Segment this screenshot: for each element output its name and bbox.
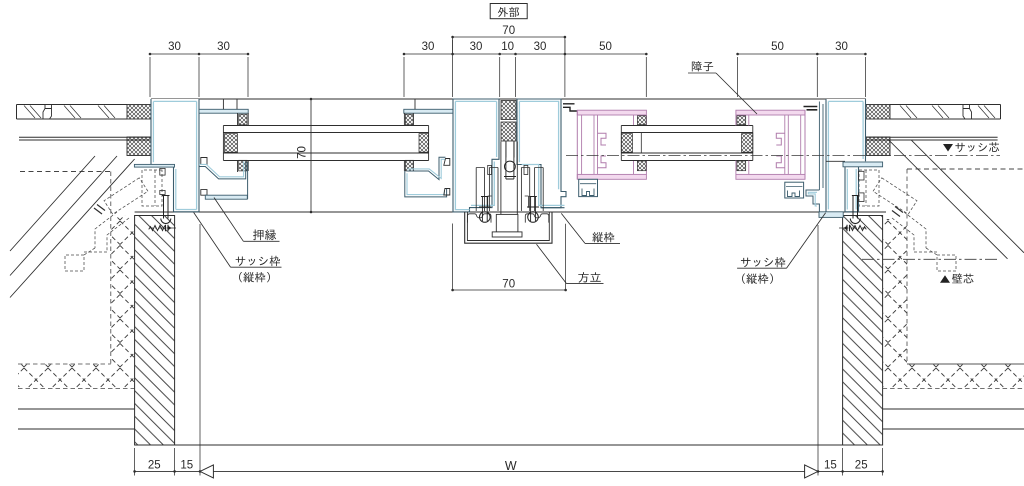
svg-text:30: 30	[168, 41, 181, 53]
wall top edge right	[843, 215, 883, 217]
left jamb wall (hatched)	[135, 216, 175, 446]
70 overall dimension	[453, 36, 565, 38]
jamb foot	[173, 167, 175, 212]
dashed structure outline right	[907, 168, 1024, 170]
top dimension row	[150, 53, 248, 55]
fin clamp marks right	[892, 207, 903, 217]
sash center line (dash-dot)	[566, 155, 1000, 157]
押縁 label	[253, 229, 263, 240]
fixing screw left	[149, 225, 176, 231]
interlock hooks	[598, 133, 607, 168]
障子 label	[692, 61, 702, 71]
insulation strip right vertical	[883, 219, 907, 364]
jamb sill piece	[819, 212, 843, 218]
backup sealant blocks at mullion joint	[501, 101, 516, 120]
jamb foot right	[844, 167, 846, 212]
sash center marker	[943, 144, 953, 152]
jamb fin over wall right	[843, 162, 883, 167]
glass spacer left end	[225, 134, 238, 153]
exterior siding wall top-right	[890, 104, 1001, 106]
fix jamb notch + bolt	[488, 165, 492, 174]
sealant crosshatch below right	[866, 137, 890, 156]
sealant backup crosshatch top-right	[866, 105, 890, 120]
fixing screw right	[839, 225, 866, 231]
W arrows	[200, 465, 213, 478]
mullion wing right	[525, 214, 549, 223]
svg-text:50: 50	[771, 41, 784, 53]
anchor plate detail left (dashed)	[65, 170, 162, 271]
concrete diagonals left	[10, 156, 95, 251]
meeting catch (dark)	[804, 107, 818, 110]
mullion jamb frame of fix window (縦枠)	[453, 99, 499, 212]
svg-text:25: 25	[855, 460, 868, 472]
svg-text:30: 30	[835, 41, 848, 53]
interior finish lines bottom-right	[883, 408, 1024, 410]
anchor bolt under left frame	[161, 196, 171, 224]
jamb fin over wall	[134, 164, 174, 167]
mullion side channels	[476, 168, 498, 212]
svg-text:30: 30	[470, 41, 483, 53]
sealant backup crosshatch top-left	[127, 105, 151, 120]
mullion center column	[501, 142, 517, 215]
fin clamp marks left	[94, 205, 105, 215]
svg-text:W: W	[505, 459, 517, 473]
inner board lines top-left	[19, 136, 151, 138]
sliding sash right stile (障子)	[736, 110, 805, 115]
svg-text:70: 70	[297, 146, 309, 159]
glass unit left window	[223, 125, 428, 127]
wall center marker	[940, 275, 950, 283]
mullion center bolt	[504, 142, 516, 180]
inner board lines top-right	[866, 136, 998, 138]
sliding jamb notch	[524, 165, 528, 174]
mullion bolt left	[479, 196, 491, 221]
jamb foot steps	[806, 190, 819, 212]
svg-text:15: 15	[180, 460, 193, 472]
svg-text:50: 50	[599, 41, 612, 53]
glass spacer right end	[419, 134, 429, 153]
stile glazing leg	[634, 115, 647, 174]
concrete diagonals right	[889, 140, 1008, 258]
mullion jamb frame of sliding window (縦枠)	[517, 99, 566, 208]
head line of frame band	[151, 98, 866, 100]
svg-text:30: 30	[217, 41, 230, 53]
sliding sash left stile (障子)	[577, 110, 646, 115]
sill line across opening	[135, 444, 883, 446]
interior finish lines bottom-left	[18, 408, 135, 410]
jamb channel leg	[819, 102, 823, 191]
foot notches	[160, 168, 165, 175]
glass spacers sliding window	[621, 134, 632, 153]
glazing bead left (押縁)	[199, 109, 248, 113]
sash bottom rail right	[785, 182, 804, 198]
bottom dimension line	[135, 470, 883, 472]
svg-text:30: 30	[534, 41, 547, 53]
svg-text:30: 30	[422, 41, 435, 53]
svg-text:70: 70	[502, 279, 515, 291]
方立 label	[578, 272, 588, 283]
svg-text:70: 70	[502, 25, 515, 37]
anchor bolt under right frame	[850, 196, 860, 224]
mullion wing left	[468, 214, 492, 223]
weather fin on sliding jamb	[563, 104, 577, 111]
サッシ枠(縦枠) label left	[236, 256, 246, 265]
mullion outer channel	[465, 212, 552, 243]
insulation strip left vertical	[111, 216, 135, 365]
svg-text:25: 25	[148, 460, 161, 472]
サッシ枠(縦枠) label right	[741, 258, 751, 267]
svg-text:10: 10	[501, 41, 514, 53]
wall center line right (dash-dot)	[862, 258, 997, 260]
glazing bead right of fix window	[404, 109, 453, 113]
anchor plate detail right (dashed)	[859, 170, 956, 271]
bottom line of frame band	[135, 211, 886, 213]
sash frame jamb right (サッシ枠 縦枠)	[826, 99, 866, 161]
glass unit sliding window	[621, 125, 753, 127]
dashed structure outline left	[20, 171, 111, 173]
right jamb wall (hatched)	[843, 216, 883, 446]
vertical 70 dimension	[310, 99, 312, 212]
sash frame jamb left (サッシ枠 縦枠)	[151, 99, 199, 165]
insulation strip left horizontal	[18, 364, 135, 389]
mullion 70 dimension below	[452, 224, 454, 291]
縦枠 label center	[592, 232, 603, 242]
svg-text:15: 15	[824, 460, 837, 472]
sash bottom rail left	[579, 179, 598, 196]
wall top edge left	[135, 215, 175, 217]
外部 exterior label box	[490, 4, 527, 19]
insulation strip right horizontal	[883, 364, 1024, 389]
mullion bolt right	[527, 196, 539, 221]
foot notches right	[859, 171, 865, 180]
sealant crosshatch below left	[127, 137, 151, 156]
exterior siding wall top-left	[17, 104, 128, 106]
